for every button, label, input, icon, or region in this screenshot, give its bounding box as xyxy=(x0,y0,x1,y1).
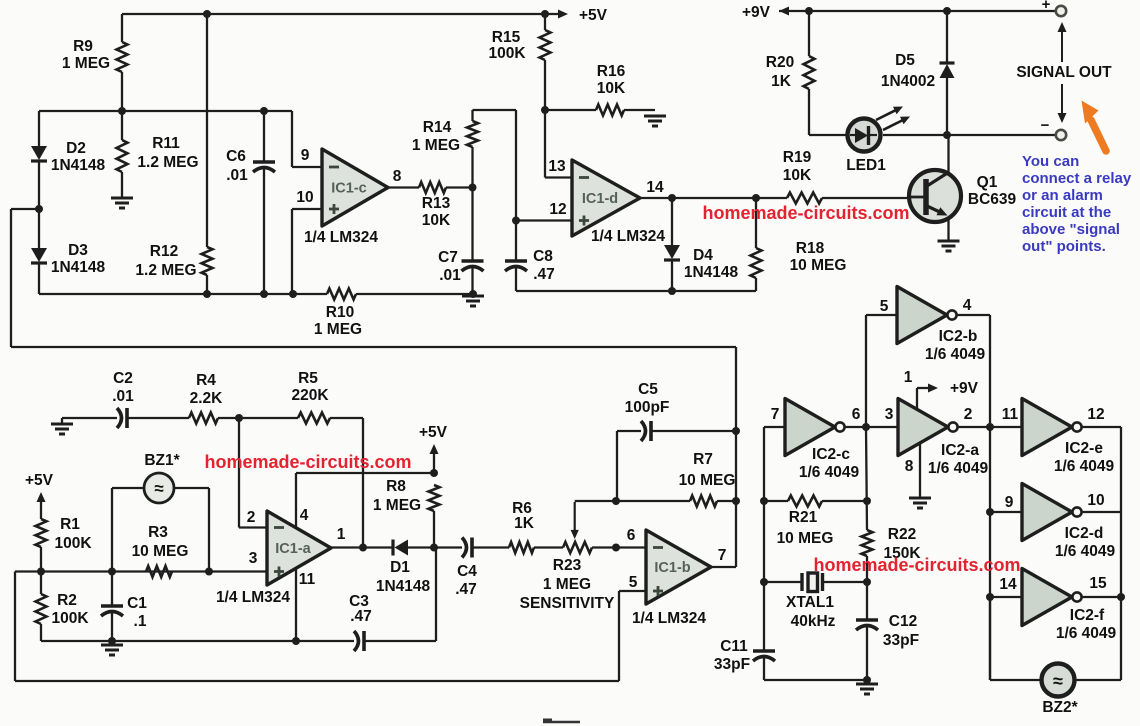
op-amp IC1-b xyxy=(646,530,711,604)
svg-text:1 MEG: 1 MEG xyxy=(314,321,362,338)
svg-text:connect a relay: connect a relay xyxy=(1022,170,1132,187)
svg-text:IC2-c: IC2-c xyxy=(812,446,850,463)
svg-text:10 MEG: 10 MEG xyxy=(132,543,189,560)
svg-text:D3: D3 xyxy=(68,242,88,259)
inverter IC2-e xyxy=(1022,399,1072,456)
orange arrow xyxy=(1091,120,1106,151)
svg-text:+: + xyxy=(1042,0,1051,13)
resistor R3 10MEG xyxy=(146,566,172,577)
node R4/R5/pin2 xyxy=(235,414,243,422)
capacitor C11 33pF xyxy=(753,649,775,653)
svg-text:R14: R14 xyxy=(423,119,452,136)
svg-text:220K: 220K xyxy=(291,387,329,404)
wire bottom row y641 xyxy=(41,640,354,642)
svg-text:R12: R12 xyxy=(150,243,178,260)
node pin2/11 xyxy=(986,423,994,431)
node R21 right xyxy=(863,497,871,505)
resistor R21 10MEG xyxy=(764,500,788,502)
node R1/R2 xyxy=(37,568,45,576)
ground under C7 xyxy=(462,295,484,298)
svg-text:6: 6 xyxy=(852,406,861,423)
svg-text:12: 12 xyxy=(1087,406,1104,423)
svg-text:C12: C12 xyxy=(889,613,917,630)
ground under R11 xyxy=(111,197,133,200)
node C5 left / R7 xyxy=(612,497,620,505)
svg-text:10 MEG: 10 MEG xyxy=(790,257,847,274)
node xtal left xyxy=(760,578,768,586)
svg-text:11: 11 xyxy=(1002,406,1019,423)
node R20 top xyxy=(805,7,813,15)
svg-text:1/6 4049: 1/6 4049 xyxy=(928,460,989,477)
crystal XTAL1 40kHz xyxy=(764,581,802,583)
svg-text:10K: 10K xyxy=(783,167,812,184)
wire pin11 V- xyxy=(295,568,297,641)
svg-text:SENSITIVITY: SENSITIVITY xyxy=(520,595,615,612)
svg-text:1/4 LM324: 1/4 LM324 xyxy=(632,610,706,627)
terminal minus xyxy=(1056,130,1066,140)
wire C8 bottom row xyxy=(516,290,756,292)
node BZ1 right xyxy=(205,568,213,576)
svg-text:R10: R10 xyxy=(326,304,354,321)
capacitor C4 .47 xyxy=(434,546,462,548)
wire pin2 branch xyxy=(238,418,240,528)
svg-text:XTAL1: XTAL1 xyxy=(786,594,834,611)
buzzer BZ2 xyxy=(989,597,991,680)
svg-text:2.2K: 2.2K xyxy=(190,390,224,407)
svg-text:BZ2*: BZ2* xyxy=(1042,699,1078,716)
svg-text:1K: 1K xyxy=(771,73,792,90)
svg-text:C8: C8 xyxy=(533,248,553,265)
svg-text:−: − xyxy=(1041,117,1050,134)
op-amp IC1-c xyxy=(322,149,388,226)
svg-text:Q1: Q1 xyxy=(977,174,998,191)
svg-text:8: 8 xyxy=(393,168,402,185)
node D5 top xyxy=(943,7,951,15)
wire to minus terminal xyxy=(947,134,1055,136)
svg-text:8: 8 xyxy=(905,458,914,475)
svg-text:+9V: +9V xyxy=(742,4,771,21)
wire pin10 of IC1-c xyxy=(292,208,322,210)
wire C2 left xyxy=(62,417,117,419)
wire emitter down xyxy=(947,218,949,240)
wire output pin7 xyxy=(711,566,736,568)
svg-text:1N4148: 1N4148 xyxy=(684,264,739,281)
svg-text:.01: .01 xyxy=(439,267,461,284)
node C6 top xyxy=(260,107,268,115)
svg-text:1K: 1K xyxy=(514,515,535,532)
svg-text:IC1-d: IC1-d xyxy=(582,191,618,207)
wire IC2-a pin1 +9V xyxy=(916,388,918,409)
svg-text:2: 2 xyxy=(964,406,973,423)
svg-text:above "signal: above "signal xyxy=(1022,221,1120,238)
svg-text:1/6 4049: 1/6 4049 xyxy=(1055,543,1116,560)
wire node row y111 xyxy=(39,110,292,112)
resistor R12 1.2MEG xyxy=(206,14,208,247)
svg-text:3: 3 xyxy=(249,550,258,567)
svg-text:9: 9 xyxy=(301,147,310,164)
+5V arrow top xyxy=(558,10,568,19)
wire feedback left xyxy=(11,208,39,210)
wire IC2-a pin8 ground xyxy=(919,444,921,497)
capacitor C7 .01 xyxy=(471,188,473,262)
svg-text:11: 11 xyxy=(299,571,316,588)
wire output pin1 xyxy=(331,546,393,548)
svg-text:1.2 MEG: 1.2 MEG xyxy=(137,154,198,171)
svg-text:+9V: +9V xyxy=(950,380,979,397)
resistor R19 10K xyxy=(787,193,822,204)
svg-text:7: 7 xyxy=(718,547,727,564)
diode D4 1N4148 xyxy=(671,198,673,245)
op-amp IC1-d xyxy=(572,160,640,236)
node pin11 xyxy=(292,637,300,645)
svg-text:13: 13 xyxy=(548,158,566,175)
svg-text:1.2 MEG: 1.2 MEG xyxy=(135,262,196,279)
node C6 bottom xyxy=(260,290,268,298)
node C12 bottom xyxy=(863,676,871,684)
node R7 right xyxy=(732,497,740,505)
svg-text:10 MEG: 10 MEG xyxy=(777,530,834,547)
resistor R11 1.2MEG xyxy=(121,111,123,140)
svg-text:1N4002: 1N4002 xyxy=(881,73,935,90)
svg-text:IC2-a: IC2-a xyxy=(941,442,979,459)
resistor R18 10MEG xyxy=(755,198,757,248)
svg-text:1/4 LM324: 1/4 LM324 xyxy=(304,229,378,246)
svg-text:LED1: LED1 xyxy=(846,157,886,174)
svg-text:.47: .47 xyxy=(533,266,555,283)
capacitor C3 .47 xyxy=(435,548,437,642)
LED1 xyxy=(809,134,847,136)
svg-text:14: 14 xyxy=(999,576,1017,593)
resistor R9 xyxy=(121,14,123,42)
node pin15 xyxy=(1117,593,1125,601)
svg-text:R16: R16 xyxy=(597,63,626,80)
wire output pin8 xyxy=(388,186,419,188)
wire IC2-b output down xyxy=(989,315,991,680)
svg-text:circuit at the: circuit at the xyxy=(1022,204,1111,221)
resistor R20 1K xyxy=(808,11,810,56)
node R15/R16/pin13 xyxy=(541,106,549,114)
node top rail R15 branch xyxy=(541,10,549,18)
svg-text:1N4148: 1N4148 xyxy=(376,578,431,595)
svg-text:homemade-circuits.com: homemade-circuits.com xyxy=(702,203,909,223)
svg-text:or an alarm: or an alarm xyxy=(1022,187,1103,204)
svg-text:1/6 4049: 1/6 4049 xyxy=(925,346,986,363)
svg-text:homemade-circuits.com: homemade-circuits.com xyxy=(204,452,411,472)
ground under C1 xyxy=(101,644,123,647)
svg-text:out" points.: out" points. xyxy=(1022,238,1106,255)
node R18 top xyxy=(752,194,760,202)
inverter IC2-f xyxy=(990,596,1022,598)
resistor R6 1K xyxy=(509,542,534,553)
node C1 bottom xyxy=(108,637,116,645)
svg-text:3: 3 xyxy=(885,406,894,423)
svg-text:IC2-f: IC2-f xyxy=(1070,607,1105,624)
svg-text:homemade-circuits.com: homemade-circuits.com xyxy=(813,555,1020,575)
svg-text:1N4148: 1N4148 xyxy=(51,157,106,174)
wire osc right rail xyxy=(866,427,867,530)
wire pin9 of IC1-c xyxy=(291,111,293,167)
diode D1 1N4148 xyxy=(391,540,394,556)
svg-text:IC2-b: IC2-b xyxy=(939,328,978,345)
resistor R14 1MEG xyxy=(471,110,473,121)
svg-text:D1: D1 xyxy=(390,559,410,576)
svg-text:BC639: BC639 xyxy=(968,191,1017,208)
svg-text:C7: C7 xyxy=(438,249,458,266)
svg-text:100K: 100K xyxy=(54,535,92,552)
wire LED to collector node xyxy=(883,134,947,136)
svg-text:R23: R23 xyxy=(553,557,582,574)
svg-text:33pF: 33pF xyxy=(714,656,750,673)
svg-text:R22: R22 xyxy=(888,526,916,543)
capacitor C8 .47 xyxy=(505,259,527,263)
ground under Q1 xyxy=(938,240,960,243)
inverter IC2-b xyxy=(866,314,897,316)
svg-text:.01: .01 xyxy=(112,388,134,405)
svg-text:D5: D5 xyxy=(895,52,915,69)
svg-text:D2: D2 xyxy=(66,140,86,157)
svg-text:10K: 10K xyxy=(422,212,451,229)
svg-text:IC2-e: IC2-e xyxy=(1065,440,1103,457)
svg-text:5: 5 xyxy=(880,298,889,315)
wire output pin14 xyxy=(640,197,787,199)
wire IC2-b input down xyxy=(865,315,867,427)
node R13/R14/C7 xyxy=(469,184,477,192)
capacitor C2 .01 xyxy=(117,408,122,428)
resistor R5 220K xyxy=(298,413,330,424)
svg-text:C5: C5 xyxy=(638,381,658,398)
bottom edge partial figure xyxy=(543,721,580,724)
svg-text:1 MEG: 1 MEG xyxy=(62,55,110,72)
svg-text:R1: R1 xyxy=(60,516,80,533)
svg-text:7: 7 xyxy=(771,406,780,423)
svg-text:1N4148: 1N4148 xyxy=(51,259,106,276)
ground C2 xyxy=(51,423,73,426)
node collector/D5/signal- xyxy=(943,131,951,139)
svg-text:R4: R4 xyxy=(196,372,216,389)
svg-text:10: 10 xyxy=(296,189,313,206)
svg-text:5: 5 xyxy=(629,574,638,591)
svg-text:R15: R15 xyxy=(492,29,521,46)
svg-text:10K: 10K xyxy=(597,80,626,97)
node top rail R12 branch xyxy=(203,10,211,18)
svg-text:15: 15 xyxy=(1089,575,1107,592)
diode D5 1N4002 xyxy=(946,11,948,63)
svg-text:.47: .47 xyxy=(455,581,477,598)
resistor R4 2.2K xyxy=(189,413,218,424)
wire R14 top to pin12 branch xyxy=(473,109,517,111)
svg-text:2: 2 xyxy=(247,509,256,526)
node D1/R8/C3/C4 xyxy=(430,544,438,552)
svg-text:IC1-b: IC1-b xyxy=(654,560,690,576)
ground pin8 xyxy=(909,497,931,500)
node R5 feedback xyxy=(359,544,367,552)
svg-text:C11: C11 xyxy=(720,638,748,655)
resistor R22 150K xyxy=(862,530,873,556)
wire input row y571.5 xyxy=(15,570,267,572)
node C1 top xyxy=(108,568,116,576)
svg-text:IC1-a: IC1-a xyxy=(275,541,311,557)
svg-text:12: 12 xyxy=(549,201,566,218)
svg-text:1/6 4049: 1/6 4049 xyxy=(1054,458,1115,475)
node D4 bottom xyxy=(668,287,676,295)
resistor R1 100K xyxy=(36,519,47,547)
svg-text:≈: ≈ xyxy=(154,479,163,498)
svg-text:R3: R3 xyxy=(148,524,168,541)
resistor R8 1MEG xyxy=(429,485,440,511)
LED1 emission arrows xyxy=(876,109,898,120)
resistor R15 100K xyxy=(544,14,546,30)
svg-text:1/4 LM324: 1/4 LM324 xyxy=(216,589,290,606)
diode D2 1N4148 xyxy=(38,111,40,146)
svg-text:.1: .1 xyxy=(134,613,147,630)
svg-text:1/6 4049: 1/6 4049 xyxy=(799,464,860,481)
wire osc left rail xyxy=(763,427,765,650)
svg-text:R19: R19 xyxy=(783,149,812,166)
svg-text:R21: R21 xyxy=(789,509,818,526)
svg-text:4: 4 xyxy=(300,507,309,524)
svg-text:+5V: +5V xyxy=(25,472,54,489)
wire outputs right rail xyxy=(1120,427,1122,680)
wire pin5 loop xyxy=(619,590,646,592)
svg-text:.47: .47 xyxy=(350,608,372,625)
svg-text:6: 6 xyxy=(627,527,636,544)
wire collector up xyxy=(947,135,949,173)
node pin14 xyxy=(986,593,994,601)
wire C11 bottom to C12 xyxy=(764,679,867,681)
wire pin6 xyxy=(616,546,646,548)
svg-text:R13: R13 xyxy=(422,195,451,212)
svg-text:.01: .01 xyxy=(226,167,248,184)
svg-text:33pF: 33pF xyxy=(883,632,919,649)
capacitor C6 .01 xyxy=(263,111,265,162)
node pin6/5 xyxy=(862,423,870,431)
ground after R16 xyxy=(644,115,666,118)
svg-text:100K: 100K xyxy=(488,45,526,62)
node R9/R11 xyxy=(118,107,126,115)
resistor R13 10K xyxy=(419,182,446,193)
svg-text:10: 10 xyxy=(1087,492,1104,509)
wire +5V top rail xyxy=(122,13,560,15)
svg-text:R5: R5 xyxy=(298,370,318,387)
pot R23 1MEG SENSITIVITY xyxy=(563,542,592,553)
transistor Q1 BC639 xyxy=(909,170,961,222)
svg-text:1/6 4049: 1/6 4049 xyxy=(1056,625,1117,642)
svg-text:1: 1 xyxy=(337,526,346,543)
wire +9V rail xyxy=(779,10,1056,12)
svg-text:C2: C2 xyxy=(113,370,133,387)
inverter IC2-a xyxy=(898,399,948,456)
svg-text:BZ1*: BZ1* xyxy=(144,452,180,469)
node pin6 xyxy=(612,544,620,552)
node D4 top xyxy=(668,194,676,202)
svg-text:1/4 LM324: 1/4 LM324 xyxy=(591,228,665,245)
wire R5 down to output node xyxy=(362,418,364,548)
svg-text:C4: C4 xyxy=(457,563,477,580)
wire pin4 V+ xyxy=(295,473,297,527)
capacitor C12 33pF xyxy=(856,618,878,622)
svg-text:C6: C6 xyxy=(226,148,246,165)
svg-text:R2: R2 xyxy=(57,592,77,609)
svg-text:10 MEG: 10 MEG xyxy=(679,472,736,489)
node R8 top xyxy=(430,469,438,477)
resistor R10 1MEG xyxy=(327,289,356,300)
diode D3 1N4148 xyxy=(35,205,43,213)
node pin10 branch xyxy=(289,290,297,298)
node R21 left xyxy=(760,497,768,505)
svg-text:SIGNAL OUT: SIGNAL OUT xyxy=(1016,64,1112,81)
svg-text:1: 1 xyxy=(904,369,913,386)
svg-text:100pF: 100pF xyxy=(625,399,670,416)
node pin9 xyxy=(986,508,994,516)
svg-text:1 MEG: 1 MEG xyxy=(412,137,460,154)
SIGNAL OUT arrows xyxy=(1061,24,1063,62)
svg-text:9: 9 xyxy=(1005,494,1014,511)
node C5 right xyxy=(732,427,740,435)
svg-text:≈: ≈ xyxy=(1053,671,1063,691)
svg-text:D4: D4 xyxy=(693,247,713,264)
svg-text:R11: R11 xyxy=(152,135,180,152)
resistor R2 100K xyxy=(40,572,42,595)
svg-text:+5V: +5V xyxy=(579,7,608,24)
node C7 ground xyxy=(469,290,477,298)
resistor R7 10MEG xyxy=(616,500,690,502)
node xtal right xyxy=(863,578,871,586)
capacitor C5 100pF xyxy=(617,430,641,432)
svg-text:R8: R8 xyxy=(386,478,406,495)
svg-text:IC1-c: IC1-c xyxy=(331,181,366,197)
op-amp IC1-a xyxy=(267,511,331,585)
svg-text:R18: R18 xyxy=(796,240,825,257)
svg-text:100K: 100K xyxy=(51,610,89,627)
svg-text:You can: You can xyxy=(1022,153,1079,170)
svg-text:1 MEG: 1 MEG xyxy=(373,497,421,514)
svg-text:R9: R9 xyxy=(73,38,93,55)
svg-text:R7: R7 xyxy=(693,451,713,468)
node R12 bottom xyxy=(203,290,211,298)
resistor R16 10K xyxy=(545,109,596,111)
svg-text:C1: C1 xyxy=(127,595,147,612)
svg-text:+5V: +5V xyxy=(419,424,448,441)
ground osc xyxy=(856,683,878,686)
inverter IC2-d xyxy=(990,511,1022,513)
capacitor C1 .1 xyxy=(111,572,113,607)
svg-text:R20: R20 xyxy=(766,54,794,71)
svg-text:40kHz: 40kHz xyxy=(791,613,836,630)
wire pin13 xyxy=(544,110,546,178)
inverter IC2-c xyxy=(764,426,785,428)
wire ground row y294 xyxy=(39,293,327,295)
svg-text:4: 4 xyxy=(963,297,972,314)
svg-text:1 MEG: 1 MEG xyxy=(543,576,591,593)
svg-text:IC2-d: IC2-d xyxy=(1065,525,1104,542)
svg-text:14: 14 xyxy=(646,179,664,196)
wire pin12 xyxy=(512,217,520,225)
terminal plus xyxy=(1056,6,1066,16)
